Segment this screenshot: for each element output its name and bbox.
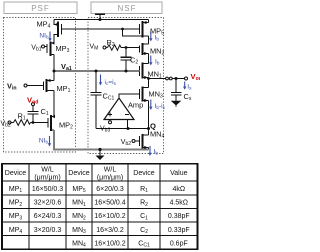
terminal Vod bbox=[32, 103, 35, 106]
PMOS source arrow MP5 bbox=[143, 21, 147, 24]
terminal Vin bbox=[24, 84, 27, 87]
junction dots bbox=[32, 18, 178, 151]
svg-text:16×50/0.3: 16×50/0.3 bbox=[32, 186, 63, 193]
current arrow Ib MN2 bbox=[149, 56, 152, 66]
pad circles at output bbox=[166, 77, 169, 80]
svg-text:MP2: MP2 bbox=[9, 200, 23, 208]
transistor MN1 bbox=[140, 63, 149, 79]
transistor MN3 bbox=[140, 79, 149, 136]
svg-text:MN4: MN4 bbox=[72, 240, 86, 248]
wire VSS gray path from MP2 drain to MN4 source bbox=[54, 130, 149, 150]
amplifier U1 (op-amp triangle) bbox=[104, 98, 134, 129]
PSF block label box bbox=[4, 2, 77, 14]
svg-text:16×3/0.2: 16×3/0.2 bbox=[96, 227, 124, 234]
capacitor C1 bbox=[28, 106, 39, 123]
svg-text:MP1: MP1 bbox=[9, 186, 23, 194]
wire mirror branch from gate line down to MP5 drain bbox=[123, 29, 143, 36]
transistor MP5 bbox=[140, 20, 149, 45]
terminal Vb2 MN4 bbox=[132, 140, 135, 143]
PMOS source arrow MP3 bbox=[51, 41, 55, 44]
svg-text:W/L: W/L bbox=[104, 167, 117, 174]
svg-text:Device: Device bbox=[5, 170, 27, 177]
resistor R2 bbox=[108, 45, 122, 50]
table text bbox=[5, 167, 190, 249]
svg-text:16×10/0.2: 16×10/0.2 bbox=[94, 213, 125, 220]
node Va1 wire (gray) bbox=[54, 70, 140, 72]
svg-text:Vb1: Vb1 bbox=[31, 45, 41, 53]
transistor MP3 bbox=[45, 42, 54, 72]
PMOS source arrow MP4 bbox=[54, 23, 58, 26]
terminal Vb1 bbox=[42, 45, 45, 48]
svg-text:MN3: MN3 bbox=[72, 227, 86, 235]
current arrow NIb top bbox=[48, 32, 51, 42]
svg-text:Vb2: Vb2 bbox=[1, 121, 11, 129]
PMOS source arrow MP1 bbox=[47, 79, 51, 82]
current arrow NIb bottom bbox=[48, 136, 51, 147]
svg-text:Amp: Amp bbox=[128, 101, 143, 110]
terminal Vb3 amp bbox=[109, 121, 112, 124]
blue current labels bbox=[39, 33, 192, 156]
svg-text:Device: Device bbox=[68, 170, 90, 177]
PSF dashed boundary bbox=[4, 18, 76, 153]
wire VDD rail bbox=[54, 19, 149, 21]
svg-text:R2: R2 bbox=[140, 200, 148, 208]
svg-text:CC1: CC1 bbox=[138, 240, 150, 248]
svg-text:Q: Q bbox=[150, 122, 156, 131]
svg-text:(μm/μm): (μm/μm) bbox=[97, 175, 123, 182]
svg-text:16×50/0.4: 16×50/0.4 bbox=[94, 200, 125, 207]
transistor MP1 bbox=[27, 71, 54, 117]
wire CC1 / amp minus / node Q bbox=[96, 128, 149, 130]
resistor R1 bbox=[14, 120, 31, 126]
red labels bbox=[27, 72, 204, 106]
amplifier U1 output wire to MN3 gate bbox=[119, 94, 140, 98]
capacitor Cs bbox=[171, 79, 182, 102]
transistor MN2 bbox=[140, 43, 149, 64]
svg-text:VM: VM bbox=[90, 44, 99, 52]
svg-text:MP5: MP5 bbox=[72, 186, 86, 194]
NSF block label box bbox=[91, 2, 162, 14]
NSF dashed boundary bbox=[88, 18, 164, 154]
svg-text:0.6pF: 0.6pF bbox=[170, 240, 188, 247]
resistor R1 wire stubs bbox=[11, 122, 13, 124]
svg-text:4.5kΩ: 4.5kΩ bbox=[170, 200, 188, 207]
svg-text:Value: Value bbox=[170, 170, 187, 177]
svg-text:C2: C2 bbox=[140, 227, 148, 235]
current arrow is output bbox=[183, 82, 186, 90]
svg-text:0.33pF: 0.33pF bbox=[168, 227, 190, 234]
svg-text:PSF: PSF bbox=[31, 4, 50, 13]
svg-text:0.38pF: 0.38pF bbox=[168, 213, 190, 220]
transistor MN4 bbox=[135, 129, 148, 150]
svg-text:16×10/0.2: 16×10/0.2 bbox=[94, 240, 125, 247]
VDD supply symbol bbox=[95, 14, 105, 19]
svg-text:6×24/0.3: 6×24/0.3 bbox=[34, 213, 62, 220]
capacitor CC1 bbox=[91, 71, 102, 129]
wire MP4 gate to MP5 gate bbox=[62, 28, 140, 30]
resistor R2 wire stubs bbox=[106, 47, 107, 49]
PMOS source arrow MP2 bbox=[51, 115, 55, 118]
svg-text:MN1: MN1 bbox=[72, 200, 86, 208]
svg-text:R1: R1 bbox=[140, 186, 148, 194]
svg-text:Device: Device bbox=[133, 170, 155, 177]
terminal Vb2 left bbox=[8, 121, 11, 124]
svg-text:C1: C1 bbox=[140, 213, 148, 221]
wire output node bbox=[149, 78, 166, 80]
svg-text:MP3: MP3 bbox=[9, 213, 23, 221]
svg-text:MN2: MN2 bbox=[72, 213, 86, 221]
ground symbol under Cs bbox=[171, 101, 182, 106]
svg-text:32×2/0.6: 32×2/0.6 bbox=[34, 200, 62, 207]
svg-text:4kΩ: 4kΩ bbox=[172, 186, 185, 193]
svg-text:3×20/0.3: 3×20/0.3 bbox=[34, 227, 62, 234]
ground symbol stem bbox=[99, 150, 101, 157]
svg-text:6×20/0.3: 6×20/0.3 bbox=[96, 186, 124, 193]
NMOS source arrow MN3 bbox=[144, 99, 148, 102]
svg-text:(μm/μm): (μm/μm) bbox=[34, 175, 60, 182]
blue current arrows bbox=[48, 32, 187, 157]
NMOS source arrow MN1 bbox=[144, 76, 148, 79]
transistor MP4 bbox=[54, 20, 62, 44]
capacitor C2 bbox=[121, 48, 132, 72]
terminal VM bbox=[103, 46, 106, 49]
transistor MP2 bbox=[33, 115, 54, 131]
ground symbol under VSS rail bbox=[96, 156, 105, 161]
svg-text:Vb2: Vb2 bbox=[121, 139, 131, 147]
current arrow Ib MP5 bbox=[149, 32, 152, 42]
current arrow Ib MN4 bbox=[148, 146, 151, 156]
svg-text:MP4: MP4 bbox=[9, 227, 23, 235]
current arrow ic=is bbox=[99, 75, 102, 86]
svg-text:Vb3: Vb3 bbox=[100, 126, 110, 134]
device table bbox=[2, 164, 198, 250]
NMOS source arrow MN4 bbox=[144, 146, 148, 149]
svg-text:NSF: NSF bbox=[118, 4, 137, 13]
NMOS source arrow MN2 bbox=[144, 52, 148, 55]
svg-text:W/L: W/L bbox=[41, 167, 54, 174]
current arrow Ib-is MN3 bbox=[149, 100, 152, 111]
terminal Vout bbox=[185, 77, 188, 80]
